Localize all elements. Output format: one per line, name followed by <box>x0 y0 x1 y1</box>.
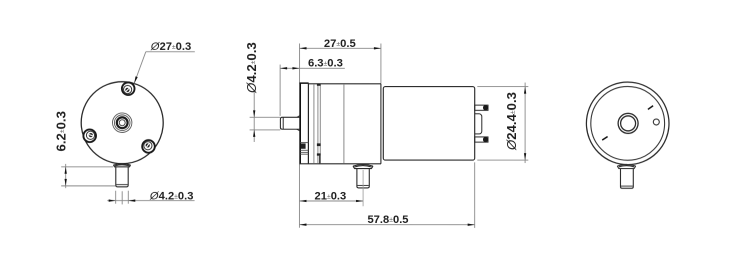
housing clip marks <box>317 84 321 86</box>
svg-text:Ø4.2±0.3: Ø4.2±0.3 <box>149 191 194 203</box>
motor body <box>383 87 474 161</box>
dimension Ø24.4±0.3 (vertical) <box>477 83 528 164</box>
witness line at pump rear x=380.9 <box>380 44 382 84</box>
rear outer circle <box>586 82 669 165</box>
housing internal joint lines <box>313 84 315 163</box>
dimension 6.2±0.3 (vertical, left view) <box>61 164 115 188</box>
bottom port flange (right view) <box>617 165 635 169</box>
dimension 57.8±0.5 <box>299 224 474 226</box>
dimension 21±0.3 <box>299 200 363 202</box>
bottom port flange (left view) <box>113 164 130 167</box>
svg-text:21±0.3: 21±0.3 <box>315 191 347 203</box>
rear bearing boss outer <box>618 113 638 133</box>
lug lower-right (screw boss) <box>142 140 155 153</box>
bottom port tube (right view) <box>620 169 633 189</box>
lug lower-left (screw boss) <box>83 129 96 142</box>
front cover plate <box>299 83 301 164</box>
dimension Ø4.2±0.3 (middle view, vertical) <box>250 91 281 142</box>
plate internal valve features <box>300 142 308 144</box>
witness line at motor end x=474.7 lower <box>474 162 476 228</box>
motor terminal lower <box>475 137 488 142</box>
hub second circle <box>114 115 130 131</box>
rear vent hole <box>653 119 659 125</box>
svg-text:Ø4.2±0.3: Ø4.2±0.3 <box>244 42 259 94</box>
dimension 27±0.5 <box>300 47 381 49</box>
svg-text:57.8±0.5: 57.8±0.5 <box>367 214 408 226</box>
rear tick upper-right <box>648 106 653 110</box>
side port root fillets <box>297 116 300 118</box>
leader line Ø27 <box>146 51 195 53</box>
motor end boss <box>475 114 482 134</box>
witness line at pump face x=299.5 upper <box>299 43 301 82</box>
bottom port tube (middle view) <box>357 169 369 188</box>
bottom port flange (middle view) <box>353 164 373 168</box>
hub outer circle <box>112 113 131 132</box>
motor terminal upper <box>475 105 488 110</box>
dimension 6.3±0.3 <box>280 67 345 69</box>
tube step line (middle view) <box>357 184 368 186</box>
hub bore <box>119 120 125 126</box>
side port end chamfer <box>282 117 284 129</box>
tube step line (left view) <box>116 184 128 186</box>
dimension Ø4.2±0.3 (left view bottom) <box>107 191 194 205</box>
pump housing body <box>308 83 381 85</box>
bottom port centerline <box>362 170 364 206</box>
bottom port tube (left view) <box>116 167 128 187</box>
side port (horizontal nozzle) <box>280 117 299 129</box>
svg-text:Ø27±0.3: Ø27±0.3 <box>150 41 191 53</box>
rear motor circle Ø24.4 <box>591 86 665 160</box>
pump front outer circle Ø27 <box>81 82 163 164</box>
tube step line (right view) <box>621 185 633 187</box>
lug top (screw boss) <box>122 82 135 95</box>
rear bearing bore <box>621 116 636 131</box>
witness line at pump face x=299.5 lower <box>298 164 300 228</box>
svg-text:Ø24.4±0.3: Ø24.4±0.3 <box>504 92 519 151</box>
rear tick lower-left <box>602 137 607 141</box>
hub thick ring <box>117 117 128 128</box>
svg-text:27±0.5: 27±0.5 <box>324 38 356 50</box>
leader arrowhead Ø27 <box>134 76 138 83</box>
